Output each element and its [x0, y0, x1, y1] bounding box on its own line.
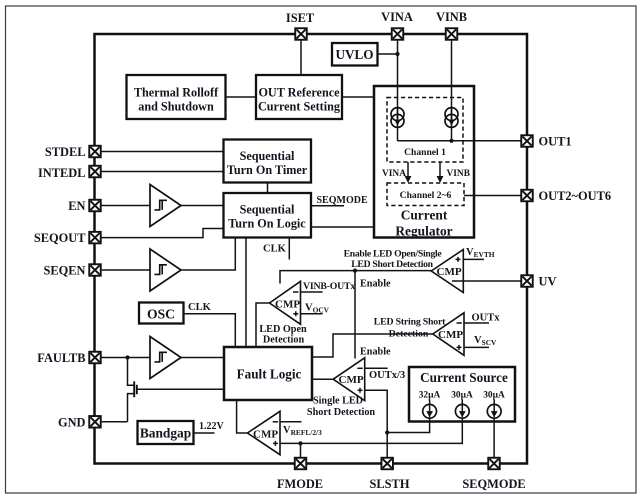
block UVLO — [332, 43, 378, 66]
svg-text:Fault Logic: Fault Logic — [237, 367, 302, 382]
svg-text:CMP: CMP — [253, 428, 278, 440]
net label VEVTH with stub — [463, 258, 484, 260]
schmitt buffer EN — [150, 185, 181, 227]
svg-text:FMODE: FMODE — [277, 477, 323, 491]
wire EN to buffer — [101, 205, 151, 207]
svg-text:30µA: 30µA — [451, 391, 473, 401]
svg-text:CMP: CMP — [275, 299, 300, 311]
svg-text:CMP: CMP — [438, 329, 463, 341]
svg-text:CMP: CMP — [339, 374, 364, 386]
svg-text:Channel 2~6: Channel 2~6 — [400, 190, 452, 201]
block Sequential Turn On Timer — [224, 140, 312, 183]
wire UV pin to CMP minus — [452, 280, 522, 282]
wire INTEDL to Timer — [101, 171, 224, 173]
junction — [385, 430, 389, 434]
svg-text:ISET: ISET — [286, 11, 315, 25]
svg-text:Bandgap: Bandgap — [140, 426, 191, 441]
current source symbol VINA — [391, 108, 404, 128]
pin ISET — [295, 28, 307, 40]
svg-text:FAULTB: FAULTB — [37, 351, 85, 365]
svg-text:Short Detection: Short Detection — [307, 407, 376, 418]
svg-text:LED String Short: LED String Short — [374, 317, 446, 328]
block Sequential Turn On Logic — [224, 193, 312, 238]
svg-text:SEQEN: SEQEN — [43, 264, 85, 278]
chip boundary — [95, 34, 528, 464]
net label VREFL/2/3 with stub — [280, 421, 302, 423]
svg-text:Channel 1: Channel 1 — [404, 147, 446, 158]
svg-text:STDEL: STDEL — [45, 145, 86, 159]
net label VINB-OUTx with stub — [301, 291, 323, 293]
svg-text:Current: Current — [401, 208, 448, 223]
block OSC — [139, 303, 184, 324]
pin SLSTH — [381, 458, 393, 470]
pin INTEDL — [89, 166, 101, 178]
wire channel1 output to OUT1 — [398, 140, 522, 142]
current source 30uA b — [487, 399, 501, 418]
svg-text:30µA: 30µA — [483, 391, 505, 401]
wire GND — [101, 421, 128, 423]
net label OUTx/3 overlined with stub — [365, 367, 388, 369]
wire FAULTB to buffer — [101, 357, 151, 359]
svg-text:Sequential: Sequential — [240, 149, 295, 163]
pin OUT2~OUT6 — [521, 190, 533, 202]
svg-text:OUT Reference: OUT Reference — [258, 86, 340, 100]
pin FMODE — [295, 458, 307, 470]
wire Timer to Logic — [267, 183, 269, 194]
svg-text:Turn On Timer: Turn On Timer — [227, 163, 308, 177]
svg-text:OUTx: OUTx — [472, 313, 501, 324]
pin EN — [89, 200, 101, 212]
wire VINA drop — [397, 40, 399, 141]
svg-text:SEQMODE: SEQMODE — [317, 195, 368, 206]
svg-text:SEQMODE: SEQMODE — [462, 477, 525, 491]
svg-text:VINA: VINA — [382, 169, 406, 179]
svg-text:LED Short Detection: LED Short Detection — [351, 259, 433, 270]
svg-text:VINB: VINB — [436, 10, 467, 24]
svg-text:1.22V: 1.22V — [199, 421, 225, 432]
comparator CMP LED String Short — [433, 313, 464, 356]
net label 1.22V with stub — [194, 432, 215, 434]
junction — [395, 52, 399, 56]
svg-text:Current Setting: Current Setting — [258, 100, 340, 114]
wire OUTx3 CMP output to Fault Logic — [312, 378, 333, 380]
wire SEQEN buffer to Logic bottom — [181, 238, 235, 270]
dashed block Channel 2~6 — [387, 183, 464, 206]
net label VSCV with stub — [464, 346, 489, 348]
wire 32uA to SLSTH node — [387, 417, 429, 432]
block Thermal Rolloff and Shutdown — [127, 75, 226, 119]
svg-text:Turn On Logic: Turn On Logic — [228, 217, 306, 231]
junction — [353, 269, 357, 273]
svg-text:CLK: CLK — [188, 302, 212, 313]
wire OUT Reference to Current Regulator — [342, 96, 374, 98]
svg-text:Sequential: Sequential — [240, 203, 295, 217]
svg-text:Detection: Detection — [389, 328, 429, 339]
wire UVLO to VINA line — [378, 53, 398, 55]
wire VREFL CMP plus line FMODE to 30uA — [280, 417, 462, 443]
pin VINA — [392, 28, 404, 40]
svg-text:INTEDL: INTEDL — [38, 166, 86, 180]
wire SEQOUT to Logic — [101, 229, 224, 238]
svg-text:Detection: Detection — [263, 335, 305, 346]
comparator CMP LED Open Detection — [270, 281, 301, 324]
pin STDEL — [89, 146, 101, 158]
wire OUTx3 CMP plus to SLSTH — [365, 390, 388, 458]
svg-text:LED Open: LED Open — [259, 324, 307, 335]
wire 30uA b to SEQMODE — [493, 417, 495, 458]
svg-text:OUT1: OUT1 — [539, 135, 572, 149]
wire Logic bottom to Fault Logic top — [245, 238, 247, 347]
svg-text:EN: EN — [68, 199, 85, 213]
wire VINB drop — [451, 40, 453, 141]
svg-text:OUTx/3: OUTx/3 — [369, 370, 405, 381]
wire FAULTB buffer to Fault Logic — [181, 357, 224, 359]
wire Thermal to OUT Reference — [226, 96, 257, 98]
svg-text:GND: GND — [58, 416, 86, 430]
svg-text:CLK: CLK — [263, 244, 287, 255]
svg-text:OUT2~OUT6: OUT2~OUT6 — [539, 189, 612, 203]
svg-text:and Shutdown: and Shutdown — [138, 100, 214, 114]
comparator CMP VREFL — [247, 411, 280, 454]
svg-text:SLSTH: SLSTH — [370, 477, 410, 491]
wire LED String CMP output to Fault Logic — [312, 334, 433, 357]
net label VOCV with stub — [301, 313, 323, 315]
wire Enable from UV CMP — [280, 271, 431, 284]
block Fault Logic — [224, 347, 312, 400]
svg-text:32µA: 32µA — [419, 391, 441, 401]
junction — [449, 139, 453, 143]
pin GND — [89, 416, 101, 428]
pin VINB — [446, 28, 458, 40]
arrow VINA to Channel 2-6 — [407, 162, 409, 177]
arrow VINB to Channel 2-6 — [439, 162, 441, 177]
svg-text:Enable: Enable — [360, 347, 391, 358]
wire LED Open CMP output to Fault Logic — [256, 303, 270, 347]
wire M1 gate to Fault Logic — [137, 388, 224, 390]
wire Logic to Current Regulator — [311, 226, 374, 228]
pin FAULTB — [89, 352, 101, 364]
wire Enable drop to OUTx3 CMP — [354, 271, 356, 359]
svg-text:VINB: VINB — [447, 169, 470, 179]
comparator CMP UV detect — [431, 250, 463, 293]
svg-text:Thermal Rolloff: Thermal Rolloff — [134, 86, 219, 100]
current source 30uA a — [455, 399, 469, 418]
pin SEQMODE — [488, 458, 500, 470]
svg-text:UVLO: UVLO — [335, 47, 373, 62]
transistor M1 FAULTB pull-down — [128, 358, 135, 386]
pin UV — [521, 275, 533, 287]
svg-text:VINA: VINA — [381, 10, 413, 24]
wire EN buffer to Logic — [181, 205, 224, 207]
block Bandgap — [138, 421, 194, 444]
wire OSC to Fault Logic — [184, 314, 236, 347]
pin SEQEN — [89, 264, 101, 276]
wire FMODE drop — [300, 443, 302, 458]
block OUT Reference Current Setting — [256, 75, 342, 119]
wire channel2-6 to OUT2~OUT6 — [464, 195, 522, 197]
junction — [125, 355, 129, 359]
wire SEQEN to buffer — [101, 269, 151, 271]
schmitt buffer SEQEN — [150, 249, 181, 291]
dashed block Channel 1 — [387, 98, 463, 163]
net label OUTx with stub — [464, 322, 489, 324]
svg-text:Single LED: Single LED — [313, 395, 363, 406]
pin SEQOUT — [89, 232, 101, 244]
svg-text:Regulator: Regulator — [395, 224, 452, 239]
svg-text:OSC: OSC — [147, 307, 175, 322]
current source symbol VINB — [445, 108, 458, 128]
svg-text:Current Source: Current Source — [420, 370, 508, 385]
svg-text:Enable: Enable — [360, 279, 391, 290]
wire VREFL CMP output to Fault Logic bottom — [237, 400, 248, 433]
junction — [298, 441, 302, 445]
schmitt buffer FAULTB — [150, 337, 181, 379]
comparator CMP single LED short OUTx/3 — [333, 358, 365, 401]
svg-text:VINB-OUTx: VINB-OUTx — [303, 281, 355, 292]
svg-text:CMP: CMP — [437, 266, 462, 278]
pin OUT1 — [521, 135, 533, 147]
svg-text:SEQOUT: SEQOUT — [34, 231, 86, 245]
block Current Source — [409, 367, 515, 422]
current source 32uA — [423, 399, 437, 418]
svg-text:UV: UV — [539, 275, 557, 289]
wire STDEL to Timer — [101, 151, 224, 153]
block Current Regulator — [374, 86, 474, 238]
wire ISET drop — [300, 40, 302, 75]
